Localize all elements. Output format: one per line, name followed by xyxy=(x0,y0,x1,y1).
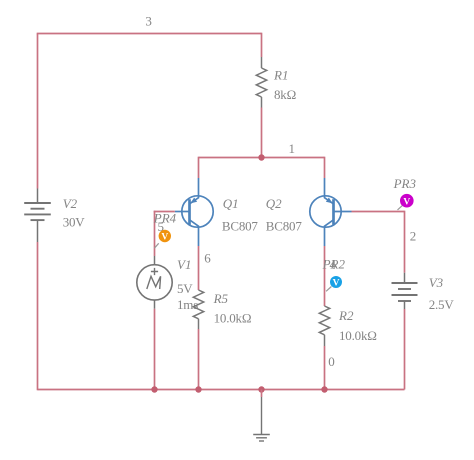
wire: R1 to node 1 xyxy=(261,108,263,158)
svg-text:V: V xyxy=(161,233,168,243)
probe PR2 (blue voltage probe) xyxy=(330,276,342,289)
node 5 label xyxy=(158,219,165,234)
wire: top horizontal net 3 xyxy=(37,33,262,35)
probe PR2 label xyxy=(322,256,346,271)
svg-text:10.0kΩ: 10.0kΩ xyxy=(214,310,252,325)
V3 refdes label xyxy=(429,275,444,290)
R5 value label 10.0kOhm xyxy=(214,310,252,325)
svg-text:Q1: Q1 xyxy=(223,196,239,211)
svg-text:2: 2 xyxy=(410,228,417,243)
node 4 label xyxy=(330,257,337,272)
resistor R5 xyxy=(193,290,203,329)
probe PR3 (magenta voltage probe) xyxy=(400,194,414,208)
wire: V2 to bottom rail xyxy=(37,242,39,390)
node 1 junction dot xyxy=(258,154,264,160)
svg-text:10.0kΩ: 10.0kΩ xyxy=(339,328,377,343)
ground xyxy=(253,397,270,441)
R2 value label 10.0kOhm xyxy=(339,328,377,343)
junction dot at R5 xyxy=(195,386,201,392)
Q1 value label BC807 xyxy=(222,219,259,234)
svg-text:5V: 5V xyxy=(177,281,193,296)
wire: top rail down to R1 xyxy=(261,33,263,57)
svg-text:V: V xyxy=(333,279,340,289)
svg-text:R1: R1 xyxy=(273,68,288,83)
svg-text:PR3: PR3 xyxy=(393,176,417,191)
svg-text:BC807: BC807 xyxy=(222,219,259,234)
junction dot at R2 xyxy=(321,386,327,392)
battery V3 xyxy=(392,273,418,309)
voltage source V1 (triangle wave) xyxy=(137,256,172,309)
svg-text:V: V xyxy=(403,197,410,207)
probe PR4 (orange voltage probe) xyxy=(159,230,171,243)
Q2 value label BC807 xyxy=(266,219,303,234)
probe PR2 pointer xyxy=(326,287,331,292)
svg-text:V2: V2 xyxy=(63,196,78,211)
wire: R2 to bottom rail xyxy=(324,346,326,390)
wire: net1 down to Q2 emitter xyxy=(324,157,326,178)
Q1 refdes label xyxy=(223,196,239,211)
svg-text:PR2: PR2 xyxy=(322,256,346,271)
svg-text:30V: 30V xyxy=(63,214,86,229)
junction dot at ground xyxy=(258,386,264,392)
wire: V1 to bottom rail xyxy=(154,309,156,390)
wire: net 1 horizontal xyxy=(199,157,325,159)
probe PR3 pointer xyxy=(398,206,403,210)
svg-text:3: 3 xyxy=(145,14,152,29)
wire: bottom rail (net 0) xyxy=(38,389,405,391)
wire: net 2 down to V3 xyxy=(404,211,406,273)
transistor Q1 (PNP BC807) xyxy=(175,178,213,246)
wire: net1 down to Q1 emitter xyxy=(198,157,200,178)
svg-text:0: 0 xyxy=(328,354,335,369)
junction dot at V1 xyxy=(151,386,157,392)
R5 refdes label xyxy=(213,291,229,306)
wire: Q1 base to corner (net 5) xyxy=(154,211,175,213)
R1 refdes label xyxy=(273,68,288,83)
Q2 refdes label xyxy=(266,196,282,211)
node 6 label xyxy=(204,250,211,265)
V1 refdes label xyxy=(177,257,191,272)
V3 value label 2.5V xyxy=(429,297,455,312)
svg-text:R5: R5 xyxy=(213,291,229,306)
transistor Q2 (PNP BC807, mirrored) xyxy=(310,178,352,246)
svg-text:6: 6 xyxy=(204,250,211,265)
R2 refdes label xyxy=(338,308,354,323)
node 0 label xyxy=(328,354,335,369)
wire: Q2 collector to R2 (net 4) xyxy=(324,246,326,306)
node 1 label xyxy=(289,141,296,156)
resistor R2 xyxy=(319,306,329,346)
V1 value label 1ms xyxy=(177,297,198,312)
V1 value label 5V xyxy=(177,281,193,296)
svg-text:1ms: 1ms xyxy=(177,297,198,312)
svg-text:R2: R2 xyxy=(338,308,354,323)
svg-text:8kΩ: 8kΩ xyxy=(274,87,296,102)
svg-text:2.5V: 2.5V xyxy=(429,297,455,312)
probe PR4 label xyxy=(153,210,177,225)
wire: rail stub to ground xyxy=(261,390,263,398)
probe PR4 pointer xyxy=(154,243,158,248)
node 2 label xyxy=(410,228,417,243)
svg-text:PR4: PR4 xyxy=(153,210,177,225)
resistor R1 xyxy=(256,57,266,108)
V2 refdes label xyxy=(63,196,78,211)
wire: net 5 down to V1 xyxy=(154,211,156,256)
wire: V3 to bottom rail xyxy=(404,309,406,390)
V2 value label 30V xyxy=(63,214,86,229)
battery V2 xyxy=(24,189,51,243)
svg-text:1: 1 xyxy=(289,141,296,156)
R1 value label 8kOhm xyxy=(274,87,296,102)
wire: Q2 base to corner (net 2) xyxy=(352,211,405,213)
svg-text:BC807: BC807 xyxy=(266,219,303,234)
svg-text:V3: V3 xyxy=(429,275,444,290)
wire: V2 top vertical xyxy=(37,34,39,189)
svg-text:Q2: Q2 xyxy=(266,196,282,211)
wire: R5 to bottom rail xyxy=(198,329,200,390)
probe PR3 label xyxy=(393,176,417,191)
node 3 label xyxy=(145,14,152,29)
wire: Q1 collector to R5 (net 6) xyxy=(198,246,200,290)
svg-text:V1: V1 xyxy=(177,257,191,272)
